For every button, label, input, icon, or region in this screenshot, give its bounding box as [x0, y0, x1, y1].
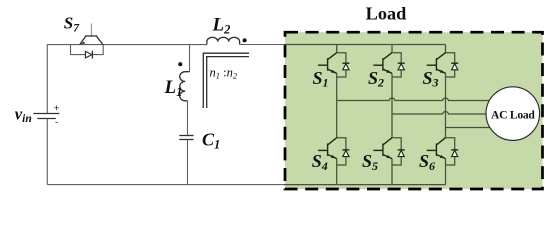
capacitor C1	[179, 136, 193, 140]
wire: top rail, L2 to load box	[240, 44, 285, 46]
diode D2 (antiparallel with S2)	[392, 53, 405, 77]
diode D7 (antiparallel with S7)	[71, 45, 104, 59]
switch S7 (IGBT)	[80, 24, 103, 45]
wire: top rail, input corner to L2	[47, 44, 207, 46]
wire: phase line B (leg2 midpoint to AC load, hops leg 3)	[392, 112, 486, 114]
svg-text:L2: L2	[212, 15, 231, 37]
svg-text:L1: L1	[164, 77, 183, 99]
wire: inverter leg 3	[445, 45, 447, 185]
svg-text:vin: vin	[15, 104, 32, 125]
transistor S4	[318, 138, 337, 159]
diode D5 (antiparallel with S5)	[392, 138, 405, 165]
wire: top rail inside load box to leg 3	[284, 44, 446, 46]
svg-text:S7: S7	[64, 14, 80, 35]
AC load (motor/load circle)	[486, 87, 540, 141]
wire: phase line A (leg1 midpoint to AC load, hops legs 2,3)	[337, 98, 490, 100]
transformer core	[203, 53, 249, 108]
wire: junction from top rail down to L1	[189, 45, 191, 72]
wire: bottom rail (outside)	[47, 184, 285, 186]
wire: inverter leg 1	[336, 45, 338, 185]
transistor S5	[373, 138, 392, 159]
wire: inverter leg 2	[391, 45, 393, 185]
inductor L2 (transformer secondary winding)	[207, 37, 240, 44]
svg-text:-: -	[55, 117, 58, 128]
svg-text:+: +	[54, 103, 60, 114]
transistor S1	[318, 53, 337, 74]
svg-text:C1: C1	[202, 130, 220, 152]
inductor L1 (transformer primary winding)	[180, 72, 190, 101]
polarity dot (L2)	[243, 38, 247, 42]
transistor S2	[373, 53, 392, 74]
transistor S6	[427, 138, 446, 159]
load box (green dashed region)	[285, 32, 543, 189]
diode D1 (antiparallel with S1)	[337, 53, 350, 77]
transistor S3	[427, 53, 446, 74]
svg-text:Load: Load	[366, 4, 407, 24]
wire: C1 to bottom rail	[187, 140, 189, 185]
polarity dot (L1)	[178, 62, 182, 66]
wire: bottom rail (inside load box)	[284, 184, 446, 186]
wire: phase line C (leg3 midpoint to AC load)	[446, 127, 491, 129]
wire: left vertical from top corner to battery	[46, 44, 48, 113]
diode D4 (antiparallel with S4)	[337, 138, 350, 165]
svg-text:n1 :n2: n1 :n2	[210, 65, 238, 80]
wire: battery negative to bottom rail	[46, 119, 48, 185]
diode D3 (antiparallel with S3)	[446, 53, 459, 77]
battery v_in	[33, 103, 59, 128]
diode D6 (antiparallel with S6)	[446, 138, 459, 165]
svg-text:AC Load: AC Load	[491, 109, 535, 122]
wire: L1 to C1	[187, 101, 189, 135]
